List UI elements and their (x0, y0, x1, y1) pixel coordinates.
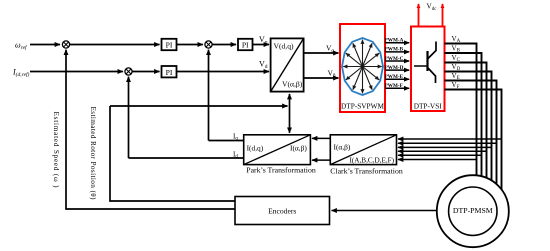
wire PWM-A (385, 42, 409, 44)
wire Clark to Park upper (312, 137, 330, 139)
wire current sense phase C to Clark (398, 150, 487, 152)
wire Id_ref to summing junction S3 (30, 71, 123, 73)
svg-text:Encoders: Encoders (268, 206, 296, 215)
wire Iq feedback horizontal (209, 140, 244, 142)
wire omega_ref to summing junction S1 (30, 44, 60, 46)
svg-text:DTP-SVPWM: DTP-SVPWM (341, 102, 384, 111)
svg-text:PWM-C: PWM-C (385, 56, 404, 62)
wire Id feedback horizontal (129, 157, 244, 159)
summing junction S3 (125, 68, 132, 75)
wire theta horizontal (110, 105, 288, 107)
Park transformation block U2 (244, 135, 311, 165)
wire speed feedback vertical to S1 (66, 51, 235, 209)
wire current sense phase D to Clark (398, 146, 492, 148)
svg-text:PI: PI (166, 41, 173, 50)
SVPWM sector dodecagon (342, 38, 383, 95)
wire V_beta to SVPWM (304, 77, 339, 79)
wire PWM-F (385, 87, 409, 89)
DTP-VSI block (411, 27, 445, 112)
wire PWM-E (385, 78, 409, 80)
svg-text:I(α,β): I(α,β) (290, 143, 307, 152)
dq to alpha-beta voltage transform block U1 (271, 38, 304, 91)
wire phase C (445, 63, 487, 183)
svg-text:DTP-VSI: DTP-VSI (414, 102, 443, 111)
svg-text:PWM-B: PWM-B (385, 47, 404, 53)
svg-text:V(d,q): V(d,q) (274, 42, 295, 51)
PI controller PI2 (238, 39, 253, 50)
wire phase F (445, 90, 502, 193)
wire phase A (445, 44, 477, 186)
Clark transformation block U3 (330, 135, 396, 165)
svg-text:I(A,B,C,D,E,F): I(A,B,C,D,E,F) (350, 156, 395, 164)
svg-text:PI: PI (166, 68, 173, 77)
motor DTP-PMSM (437, 175, 509, 247)
Vdc supply rail left (418, 4, 420, 27)
wire theta vertical (110, 106, 235, 201)
wire PI2 to V-transform block (253, 44, 270, 46)
wire V_alpha to SVPWM (304, 52, 339, 54)
svg-text:Clark’s Transformation: Clark’s Transformation (330, 166, 403, 175)
svg-text:DTP-PMSM: DTP-PMSM (453, 206, 493, 215)
wire current sense phase E to Clark (398, 142, 497, 144)
svg-text:Estimated Speed (ω ): Estimated Speed (ω ) (52, 112, 60, 189)
SVPWM space vectors (343, 40, 382, 94)
Vdc supply rail right (442, 4, 444, 27)
svg-text:I(α,β): I(α,β) (334, 143, 351, 152)
wire current sense phase A to Clark (398, 159, 477, 161)
wire S2 to PI2 (212, 44, 236, 46)
svg-text:PWM-D: PWM-D (385, 65, 404, 71)
DTP-SVPWM block (340, 24, 385, 112)
summing junction S1 (62, 41, 69, 48)
wire S3 to PI3 (132, 71, 159, 73)
svg-text:I(d,q): I(d,q) (247, 143, 264, 152)
svg-text:PWM-E: PWM-E (385, 74, 404, 80)
transistor Q1 (414, 42, 436, 84)
wire Clark to Park lower (312, 159, 330, 161)
svg-text:V(α,β): V(α,β) (282, 80, 303, 89)
wire theta to V-transform block (289, 94, 291, 106)
svg-text:PI: PI (242, 41, 249, 50)
svg-text:Estimated Rotor Position (θ): Estimated Rotor Position (θ) (89, 107, 97, 201)
wire phase B (445, 53, 482, 185)
wire current sense phase F to Clark (398, 138, 502, 140)
Encoders block (235, 197, 330, 225)
wire PI1 to summing junction S2 (177, 44, 203, 46)
wire theta to Park block (289, 106, 291, 133)
summing junction S2 (205, 41, 212, 48)
wire phase D (445, 72, 492, 183)
arrow speed into S1 (65, 50, 67, 54)
wire PWM-D (385, 69, 409, 71)
wire current sense phase B to Clark (398, 154, 482, 156)
wire Id feedback vertical to S3 (128, 77, 130, 158)
svg-text:Park’s Transformation: Park’s Transformation (246, 166, 316, 175)
wire motor to Encoders (332, 210, 441, 212)
wire PI3 to V-transform block (177, 71, 270, 73)
svg-text:PWM-A: PWM-A (385, 38, 404, 44)
wire S1 to PI1 (70, 44, 160, 46)
wire Iq feedback vertical to S2 (208, 50, 210, 141)
wire PWM-C (385, 60, 409, 62)
PI controller PI1 (162, 39, 177, 50)
wire PWM-B (385, 51, 409, 53)
svg-text:PWM-F: PWM-F (385, 83, 403, 89)
PI controller PI3 (162, 66, 177, 77)
wire phase E (445, 81, 497, 187)
